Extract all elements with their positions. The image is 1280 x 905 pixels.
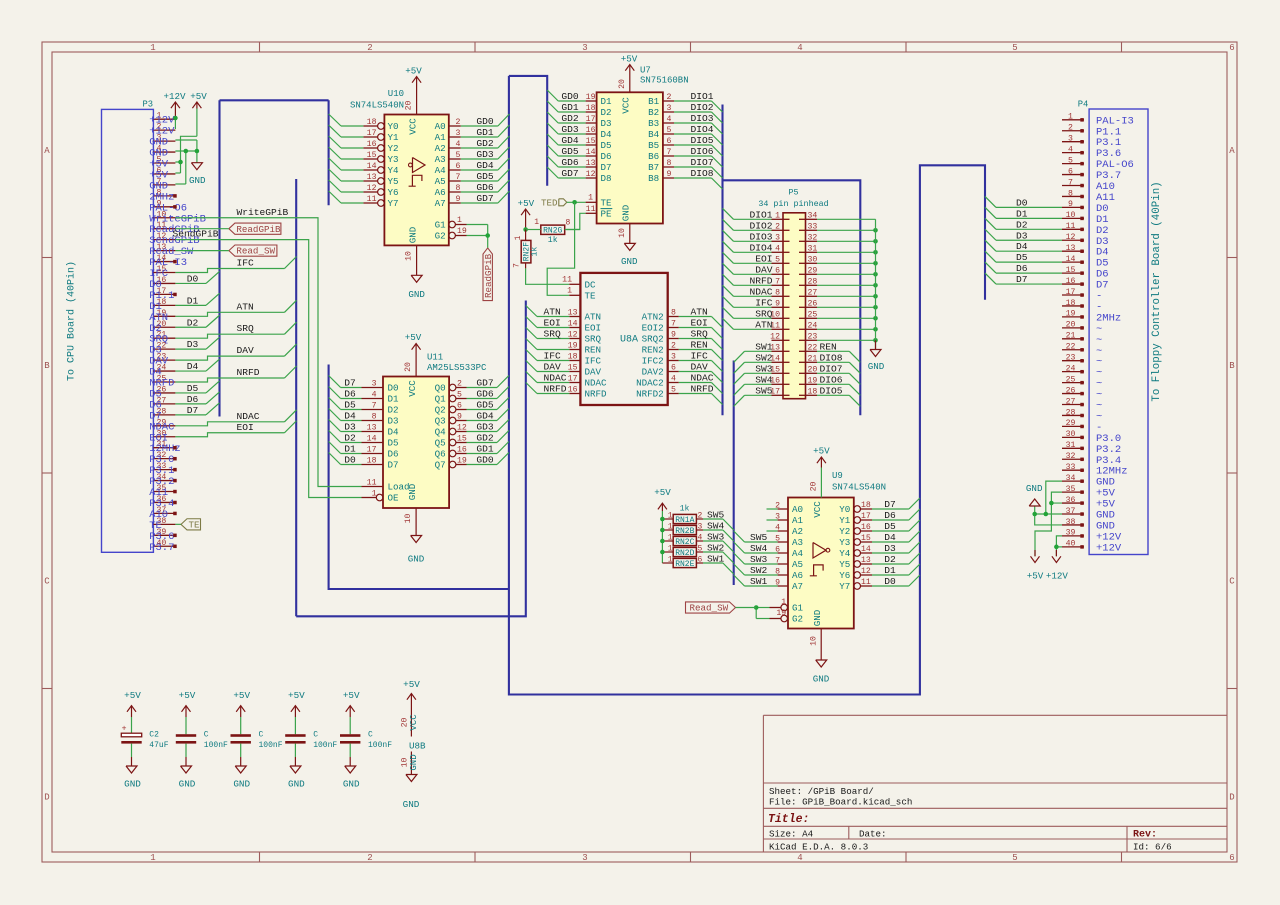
svg-text:6: 6 — [1229, 853, 1234, 863]
svg-text:SW2: SW2 — [755, 352, 773, 363]
svg-text:B1: B1 — [648, 96, 660, 107]
svg-text:SW1: SW1 — [750, 576, 768, 587]
svg-text:G2: G2 — [792, 614, 803, 625]
svg-text:100nF: 100nF — [259, 741, 283, 750]
svg-text:Id: 6/6: Id: 6/6 — [1133, 841, 1172, 852]
svg-text:8: 8 — [456, 184, 461, 193]
svg-text:ATN: ATN — [691, 307, 708, 318]
svg-text:D2: D2 — [1016, 219, 1028, 230]
svg-text:11: 11 — [562, 276, 572, 285]
svg-text:1: 1 — [668, 534, 673, 543]
svg-text:GD1: GD1 — [476, 127, 494, 138]
svg-text:SW3: SW3 — [755, 363, 773, 374]
svg-text:12: 12 — [770, 332, 780, 341]
svg-text:Q5: Q5 — [435, 438, 446, 449]
svg-text:16: 16 — [1066, 277, 1076, 286]
svg-text:GD0: GD0 — [561, 91, 579, 102]
svg-text:3: 3 — [372, 380, 377, 389]
svg-text:20: 20 — [809, 482, 818, 492]
svg-text:2: 2 — [456, 118, 461, 127]
svg-text:15: 15 — [1066, 266, 1076, 275]
svg-text:D6: D6 — [1016, 263, 1028, 274]
svg-text:GND: GND — [408, 289, 425, 300]
svg-text:NRFD: NRFD — [749, 275, 772, 286]
svg-text:18: 18 — [367, 118, 377, 127]
svg-text:B6: B6 — [648, 151, 659, 162]
svg-text:Y0: Y0 — [388, 121, 399, 132]
svg-text:U8A: U8A — [620, 335, 638, 346]
svg-text:12: 12 — [457, 424, 467, 433]
svg-text:14: 14 — [568, 320, 578, 329]
svg-text:5: 5 — [671, 386, 676, 395]
svg-text:D7: D7 — [187, 405, 199, 416]
svg-text:39: 39 — [1066, 529, 1076, 538]
svg-text:D4: D4 — [187, 361, 199, 372]
svg-text:9: 9 — [667, 170, 672, 179]
svg-text:14: 14 — [861, 545, 871, 554]
svg-text:100nF: 100nF — [313, 741, 337, 750]
svg-text:RN1A: RN1A — [675, 516, 694, 525]
svg-text:13: 13 — [861, 556, 871, 565]
svg-text:3: 3 — [456, 129, 461, 138]
svg-text:SRQ: SRQ — [544, 329, 562, 340]
svg-text:D3: D3 — [1016, 230, 1028, 241]
svg-text:16: 16 — [568, 386, 578, 395]
svg-text:SW5: SW5 — [750, 532, 768, 543]
svg-text:SN75160BN: SN75160BN — [640, 76, 689, 86]
svg-text:14: 14 — [1066, 255, 1076, 264]
svg-text:5: 5 — [667, 126, 672, 135]
svg-text:D1: D1 — [1016, 208, 1028, 219]
svg-text:SW5: SW5 — [707, 510, 725, 521]
svg-text:GD7: GD7 — [476, 378, 493, 389]
svg-text:NRFD: NRFD — [544, 384, 567, 395]
svg-text:12: 12 — [861, 567, 871, 576]
svg-text:DAV: DAV — [691, 362, 709, 373]
svg-text:TE: TE — [189, 519, 201, 530]
svg-text:IFC: IFC — [237, 258, 255, 269]
svg-text:27: 27 — [1066, 397, 1076, 406]
svg-text:U7: U7 — [640, 66, 651, 76]
svg-text:+5V: +5V — [343, 690, 360, 701]
svg-text:A2: A2 — [792, 526, 803, 537]
svg-text:SW4: SW4 — [750, 543, 768, 554]
svg-text:2: 2 — [667, 93, 672, 102]
svg-text:GD0: GD0 — [476, 455, 494, 466]
svg-text:19: 19 — [568, 342, 578, 351]
svg-text:P3.7: P3.7 — [149, 542, 174, 554]
svg-text:D5: D5 — [388, 438, 399, 449]
svg-text:1: 1 — [668, 512, 673, 521]
svg-text:+5V: +5V — [288, 690, 305, 701]
svg-text:Y1: Y1 — [388, 132, 400, 143]
svg-text:NDAC: NDAC — [585, 378, 608, 389]
svg-text:GD1: GD1 — [561, 102, 579, 113]
svg-text:+5V: +5V — [813, 445, 830, 456]
svg-text:2: 2 — [367, 43, 372, 53]
svg-text:+12V: +12V — [1046, 571, 1069, 582]
svg-text:D1: D1 — [601, 96, 613, 107]
svg-text:10: 10 — [618, 228, 627, 238]
svg-text:23: 23 — [808, 332, 818, 341]
svg-text:D1: D1 — [884, 565, 896, 576]
svg-text:EOI2: EOI2 — [642, 323, 664, 334]
svg-text:17: 17 — [861, 512, 871, 521]
svg-text:D: D — [44, 793, 49, 803]
svg-text:4: 4 — [667, 115, 672, 124]
svg-text:Q3: Q3 — [435, 416, 446, 427]
svg-text:9: 9 — [456, 195, 461, 204]
svg-text:Y7: Y7 — [388, 198, 399, 209]
svg-text:13: 13 — [1066, 244, 1076, 253]
svg-text:14: 14 — [367, 435, 377, 444]
svg-text:8: 8 — [667, 159, 672, 168]
svg-text:PE: PE — [601, 209, 613, 220]
svg-text:D7: D7 — [601, 162, 612, 173]
svg-text:A5: A5 — [792, 559, 803, 570]
svg-text:P3: P3 — [142, 100, 153, 110]
svg-text:7: 7 — [667, 148, 672, 157]
svg-text:24: 24 — [1066, 364, 1076, 373]
svg-text:D3: D3 — [187, 339, 199, 350]
svg-text:SW1: SW1 — [707, 554, 725, 565]
svg-text:Y6: Y6 — [388, 187, 399, 198]
svg-text:D6: D6 — [344, 389, 356, 400]
svg-text:B4: B4 — [648, 129, 660, 140]
svg-text:12: 12 — [1066, 233, 1076, 242]
svg-text:100nF: 100nF — [204, 741, 228, 750]
svg-text:C: C — [44, 577, 50, 587]
svg-text:U10: U10 — [388, 89, 404, 99]
svg-text:16: 16 — [586, 126, 596, 135]
svg-text:EOI: EOI — [585, 323, 602, 334]
svg-text:4: 4 — [456, 140, 461, 149]
svg-text:KiCad E.D.A. 8.0.3: KiCad E.D.A. 8.0.3 — [769, 841, 868, 852]
svg-text:3: 3 — [775, 233, 780, 242]
svg-text:Y7: Y7 — [839, 581, 850, 592]
svg-text:EOI: EOI — [237, 422, 254, 433]
svg-text:ATN: ATN — [755, 319, 772, 330]
svg-text:NDAC: NDAC — [544, 373, 567, 384]
svg-text:A0: A0 — [435, 121, 446, 132]
svg-text:DIO6: DIO6 — [691, 146, 714, 157]
svg-text:+5V: +5V — [621, 54, 638, 65]
svg-text:SW4: SW4 — [707, 521, 725, 532]
svg-text:8: 8 — [671, 309, 676, 318]
svg-text:Rev:: Rev: — [1133, 830, 1157, 841]
svg-text:NDAC2: NDAC2 — [636, 378, 664, 389]
svg-text:A6: A6 — [792, 570, 803, 581]
svg-text:40: 40 — [1066, 540, 1076, 549]
svg-text:GD5: GD5 — [476, 171, 494, 182]
svg-text:15: 15 — [568, 364, 578, 373]
svg-text:A: A — [1229, 146, 1235, 156]
svg-text:D0: D0 — [1016, 197, 1028, 208]
svg-text:1: 1 — [775, 211, 780, 220]
svg-text:11: 11 — [367, 195, 377, 204]
svg-text:21: 21 — [1066, 332, 1076, 341]
svg-text:OE: OE — [388, 493, 400, 504]
svg-text:TE: TE — [601, 198, 613, 209]
svg-text:GND: GND — [812, 609, 823, 626]
svg-text:GND: GND — [813, 674, 830, 685]
svg-text:47uF: 47uF — [149, 741, 168, 750]
svg-text:4: 4 — [698, 534, 703, 543]
svg-text:ReadGPiB: ReadGPiB — [236, 224, 281, 235]
svg-text:D2: D2 — [344, 433, 356, 444]
svg-text:DIO8: DIO8 — [691, 168, 714, 179]
svg-text:D4: D4 — [601, 129, 613, 140]
svg-text:NDAC: NDAC — [691, 373, 714, 384]
svg-text:EOI: EOI — [691, 318, 708, 329]
svg-text:GND: GND — [621, 256, 638, 267]
svg-text:A2: A2 — [435, 143, 446, 154]
svg-text:27: 27 — [808, 288, 818, 297]
svg-text:5: 5 — [1012, 43, 1017, 53]
svg-text:18: 18 — [861, 501, 871, 510]
svg-text:DIO3: DIO3 — [691, 113, 714, 124]
svg-text:A0: A0 — [792, 504, 803, 515]
svg-text:4: 4 — [797, 43, 802, 53]
svg-text:19: 19 — [776, 609, 786, 618]
svg-text:DAV: DAV — [755, 264, 773, 275]
svg-text:Q4: Q4 — [435, 427, 447, 438]
svg-text:GD7: GD7 — [476, 193, 493, 204]
svg-text:IFC2: IFC2 — [642, 356, 664, 367]
svg-text:26: 26 — [808, 299, 818, 308]
svg-text:7: 7 — [513, 263, 522, 268]
svg-text:SN74LS540N: SN74LS540N — [832, 483, 886, 493]
svg-text:D5: D5 — [601, 140, 612, 151]
svg-text:1: 1 — [534, 218, 539, 227]
svg-text:NRFD: NRFD — [237, 367, 260, 378]
svg-text:B8: B8 — [648, 173, 659, 184]
svg-text:33: 33 — [1066, 463, 1076, 472]
svg-text:15: 15 — [586, 137, 596, 146]
svg-text:WriteGPiB: WriteGPiB — [237, 207, 289, 218]
svg-text:To CPU Board (40Pin): To CPU Board (40Pin) — [66, 261, 78, 381]
svg-text:10: 10 — [405, 251, 414, 261]
svg-text:25: 25 — [1066, 375, 1076, 384]
svg-text:+: + — [122, 725, 127, 734]
svg-text:4: 4 — [671, 375, 676, 384]
svg-text:+12V: +12V — [163, 91, 186, 102]
svg-text:+5V: +5V — [405, 66, 422, 77]
svg-text:14: 14 — [586, 148, 596, 157]
svg-text:Y2: Y2 — [839, 526, 850, 537]
svg-text:GND: GND — [408, 554, 425, 565]
svg-text:B: B — [44, 361, 50, 371]
svg-text:2: 2 — [671, 342, 676, 351]
svg-text:Q2: Q2 — [435, 405, 446, 416]
svg-text:ReadGPiB: ReadGPiB — [483, 253, 494, 298]
svg-text:6: 6 — [457, 402, 462, 411]
svg-text:P4: P4 — [1078, 100, 1089, 110]
svg-text:17: 17 — [586, 115, 596, 124]
svg-text:P5: P5 — [788, 188, 798, 198]
svg-text:+12V: +12V — [1096, 542, 1122, 554]
svg-text:RN2G: RN2G — [543, 226, 562, 235]
svg-text:VCC: VCC — [812, 501, 823, 518]
svg-text:SN74LS540N: SN74LS540N — [350, 101, 404, 111]
svg-text:D1: D1 — [344, 444, 356, 455]
svg-text:D3: D3 — [344, 422, 356, 433]
svg-text:19: 19 — [808, 376, 818, 385]
svg-text:B: B — [1229, 361, 1235, 371]
svg-text:D0: D0 — [884, 576, 896, 587]
svg-text:3: 3 — [582, 43, 587, 53]
svg-text:GD2: GD2 — [476, 433, 494, 444]
svg-text:D5: D5 — [344, 400, 356, 411]
svg-text:GD3: GD3 — [476, 149, 494, 160]
svg-text:Read_SW: Read_SW — [236, 246, 275, 257]
svg-text:DAV: DAV — [544, 362, 562, 373]
svg-text:4: 4 — [1068, 145, 1073, 154]
svg-text:File: GPiB_Board.kicad_sch: File: GPiB_Board.kicad_sch — [769, 796, 912, 807]
svg-text:GND: GND — [621, 204, 632, 221]
svg-text:B3: B3 — [648, 118, 659, 129]
svg-text:SW3: SW3 — [707, 532, 725, 543]
svg-text:1: 1 — [668, 556, 673, 565]
svg-text:DIO5: DIO5 — [691, 135, 714, 146]
svg-text:19: 19 — [457, 457, 467, 466]
svg-text:A6: A6 — [435, 187, 446, 198]
svg-text:30: 30 — [808, 255, 818, 264]
svg-text:3: 3 — [582, 853, 587, 863]
svg-text:32: 32 — [808, 233, 818, 242]
svg-text:1k: 1k — [529, 247, 539, 257]
svg-text:D6: D6 — [187, 394, 199, 405]
svg-text:Y1: Y1 — [839, 515, 851, 526]
svg-text:+5V: +5V — [518, 198, 535, 209]
svg-text:REN2: REN2 — [642, 345, 664, 356]
svg-text:D2: D2 — [601, 107, 612, 118]
svg-text:10: 10 — [404, 514, 413, 524]
svg-text:SendGPiB: SendGPiB — [173, 229, 219, 240]
svg-text:NRFD: NRFD — [585, 389, 608, 400]
svg-text:TE: TE — [585, 291, 597, 302]
svg-text:GND: GND — [407, 226, 418, 243]
svg-text:Y5: Y5 — [839, 559, 850, 570]
svg-text:7: 7 — [456, 173, 461, 182]
svg-text:6: 6 — [456, 162, 461, 171]
svg-text:31: 31 — [1066, 441, 1076, 450]
svg-text:GD5: GD5 — [476, 400, 494, 411]
svg-text:Q1: Q1 — [435, 394, 447, 405]
svg-text:D7: D7 — [884, 499, 896, 510]
svg-text:4: 4 — [775, 244, 780, 253]
svg-text:11: 11 — [1066, 222, 1076, 231]
svg-text:9: 9 — [457, 413, 462, 422]
svg-text:33: 33 — [808, 222, 818, 231]
svg-text:Size: A4: Size: A4 — [769, 828, 814, 839]
svg-text:A1: A1 — [792, 515, 804, 526]
svg-text:+5V: +5V — [233, 690, 250, 701]
svg-text:8: 8 — [1068, 189, 1073, 198]
svg-text:DIO7: DIO7 — [820, 363, 843, 374]
svg-text:2: 2 — [1068, 124, 1073, 133]
svg-text:A4: A4 — [435, 165, 447, 176]
svg-text:D2: D2 — [187, 317, 199, 328]
svg-text:17: 17 — [367, 446, 377, 455]
svg-text:GD2: GD2 — [476, 138, 494, 149]
svg-text:5: 5 — [698, 545, 703, 554]
svg-text:DAV2: DAV2 — [642, 367, 664, 378]
svg-text:1: 1 — [150, 853, 155, 863]
svg-text:31: 31 — [808, 244, 818, 253]
svg-text:34 pin pinhead: 34 pin pinhead — [758, 199, 828, 209]
svg-text:A3: A3 — [792, 537, 803, 548]
svg-text:Q6: Q6 — [435, 449, 446, 460]
svg-text:DIO4: DIO4 — [749, 242, 772, 253]
svg-text:+5V: +5V — [654, 487, 671, 498]
svg-text:19: 19 — [586, 93, 596, 102]
svg-text:D7: D7 — [344, 378, 356, 389]
svg-text:D7: D7 — [388, 460, 399, 471]
svg-text:D0: D0 — [344, 455, 356, 466]
svg-text:GND: GND — [409, 754, 419, 770]
svg-text:GD7: GD7 — [561, 168, 578, 179]
svg-text:VCC: VCC — [409, 714, 419, 731]
svg-text:D3: D3 — [884, 543, 896, 554]
svg-text:16: 16 — [367, 140, 377, 149]
svg-text:GND: GND — [403, 799, 420, 810]
svg-text:D: D — [1229, 793, 1234, 803]
svg-text:19: 19 — [457, 227, 467, 236]
svg-text:TED: TED — [541, 198, 558, 209]
svg-text:REN: REN — [820, 341, 837, 352]
svg-text:1: 1 — [668, 545, 673, 554]
svg-text:GD6: GD6 — [476, 389, 494, 400]
svg-text:Y0: Y0 — [839, 504, 850, 515]
svg-text:9: 9 — [775, 299, 780, 308]
svg-text:D6: D6 — [601, 151, 612, 162]
svg-text:A5: A5 — [435, 176, 446, 187]
svg-text:1: 1 — [514, 235, 523, 240]
svg-text:D0: D0 — [187, 273, 199, 284]
svg-text:GD0: GD0 — [476, 116, 494, 127]
svg-text:GD5: GD5 — [561, 146, 579, 157]
svg-text:13: 13 — [367, 424, 377, 433]
svg-text:11: 11 — [367, 479, 377, 488]
svg-text:SW5: SW5 — [755, 385, 773, 396]
svg-text:D2: D2 — [884, 554, 896, 565]
svg-text:G1: G1 — [435, 220, 447, 231]
svg-text:DIO1: DIO1 — [749, 209, 772, 220]
svg-text:GD4: GD4 — [561, 135, 579, 146]
svg-text:3: 3 — [667, 104, 672, 113]
svg-text:DIO8: DIO8 — [820, 352, 843, 363]
svg-text:28: 28 — [808, 277, 818, 286]
svg-text:A7: A7 — [792, 581, 803, 592]
svg-text:17: 17 — [1066, 288, 1076, 297]
svg-text:GND: GND — [343, 778, 360, 789]
svg-text:15: 15 — [367, 151, 377, 160]
svg-text:D7: D7 — [1016, 274, 1028, 285]
svg-text:C: C — [204, 731, 209, 740]
svg-text:SW1: SW1 — [755, 341, 773, 352]
svg-text:+5V: +5V — [124, 690, 141, 701]
svg-text:GD6: GD6 — [476, 182, 494, 193]
svg-text:EOI: EOI — [544, 318, 561, 329]
svg-text:SRQ: SRQ — [691, 329, 709, 340]
svg-text:3: 3 — [698, 523, 703, 532]
svg-text:REN: REN — [585, 345, 602, 356]
svg-text:20: 20 — [808, 365, 818, 374]
svg-text:ATN2: ATN2 — [642, 312, 664, 323]
svg-text:26: 26 — [1066, 386, 1076, 395]
svg-text:10: 10 — [1066, 211, 1076, 220]
